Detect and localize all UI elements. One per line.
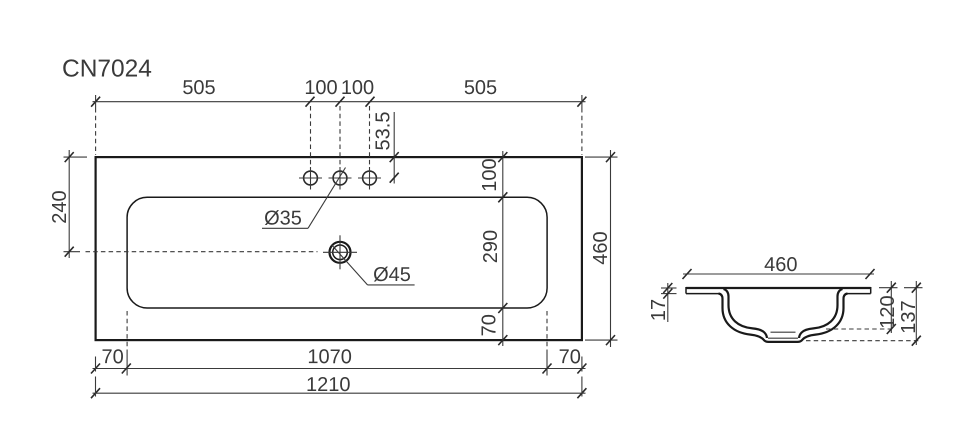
extension line hole middle bbox=[339, 106, 341, 167]
svg-text:100: 100 bbox=[479, 158, 501, 191]
rim right edge bbox=[870, 287, 872, 294]
svg-text:1210: 1210 bbox=[306, 374, 351, 396]
drain recess thin lines bbox=[771, 331, 796, 333]
bowl inner wall section bbox=[724, 289, 843, 338]
svg-text:505: 505 bbox=[182, 77, 215, 99]
faucet hole left bbox=[299, 167, 322, 190]
centerline dash-dot bbox=[86, 251, 318, 253]
extension line top-left corner bbox=[95, 95, 97, 108]
svg-text:53.5: 53.5 bbox=[373, 112, 395, 151]
inner vertical dimension column 100/290/70 bbox=[479, 151, 508, 346]
svg-text:CN7024: CN7024 bbox=[62, 56, 152, 83]
svg-text:100: 100 bbox=[341, 77, 374, 99]
svg-text:Ø45: Ø45 bbox=[373, 264, 411, 286]
dimension 460 right of top view bbox=[585, 150, 618, 347]
countertop top surface bbox=[686, 287, 871, 289]
svg-text:100: 100 bbox=[304, 77, 337, 99]
tick at x=310 bbox=[306, 97, 315, 107]
svg-text:137: 137 bbox=[898, 300, 920, 333]
dimension 120 side view bbox=[826, 281, 899, 334]
rim left edge bbox=[685, 287, 687, 294]
bottom extension lines bbox=[95, 357, 97, 372]
svg-text:290: 290 bbox=[480, 230, 502, 263]
svg-text:120: 120 bbox=[877, 295, 899, 328]
rim underside right bbox=[847, 293, 871, 295]
svg-text:17: 17 bbox=[648, 299, 670, 321]
bottom dimension line 70/1070/70 bbox=[91, 346, 586, 373]
drain hole bbox=[323, 235, 357, 269]
extension line hole right bbox=[369, 106, 371, 167]
svg-text:Ø35: Ø35 bbox=[264, 207, 302, 229]
basin inner bowl outline (top view) bbox=[127, 197, 547, 308]
leader and label D45 bbox=[332, 245, 415, 286]
svg-text:460: 460 bbox=[590, 231, 612, 264]
svg-text:70: 70 bbox=[101, 346, 123, 368]
dimension 17 side view bbox=[648, 283, 677, 322]
dimension 53.5 vertical bbox=[373, 112, 399, 184]
extension line top-right corner bbox=[581, 95, 583, 108]
svg-text:70: 70 bbox=[479, 314, 501, 336]
top dimension line (505/100/100/505) bbox=[93, 101, 586, 103]
bowl outer wall section bbox=[719, 294, 848, 342]
svg-text:1070: 1070 bbox=[307, 346, 352, 368]
svg-text:70: 70 bbox=[559, 346, 581, 368]
svg-text:240: 240 bbox=[49, 190, 71, 223]
tick at x=96 bbox=[91, 97, 100, 107]
faucet hole middle bbox=[329, 167, 352, 190]
bottom dimension line 1210 bbox=[91, 374, 586, 398]
dimension 137 side view bbox=[806, 281, 923, 346]
faucet hole right bbox=[358, 167, 381, 190]
tick at x=582.5 bbox=[577, 97, 586, 107]
dimension 460 side view bbox=[683, 254, 875, 279]
svg-text:460: 460 bbox=[764, 254, 797, 276]
washbasin outer outline (top view) bbox=[96, 157, 582, 340]
dimension 240 left bbox=[49, 150, 87, 258]
svg-text:505: 505 bbox=[464, 77, 497, 99]
tick at x=340 bbox=[336, 97, 345, 107]
leader and label D35 bbox=[262, 168, 346, 230]
tick at x=370 bbox=[366, 97, 375, 107]
extension line hole left bbox=[310, 106, 312, 167]
rim underside left bbox=[686, 293, 719, 295]
